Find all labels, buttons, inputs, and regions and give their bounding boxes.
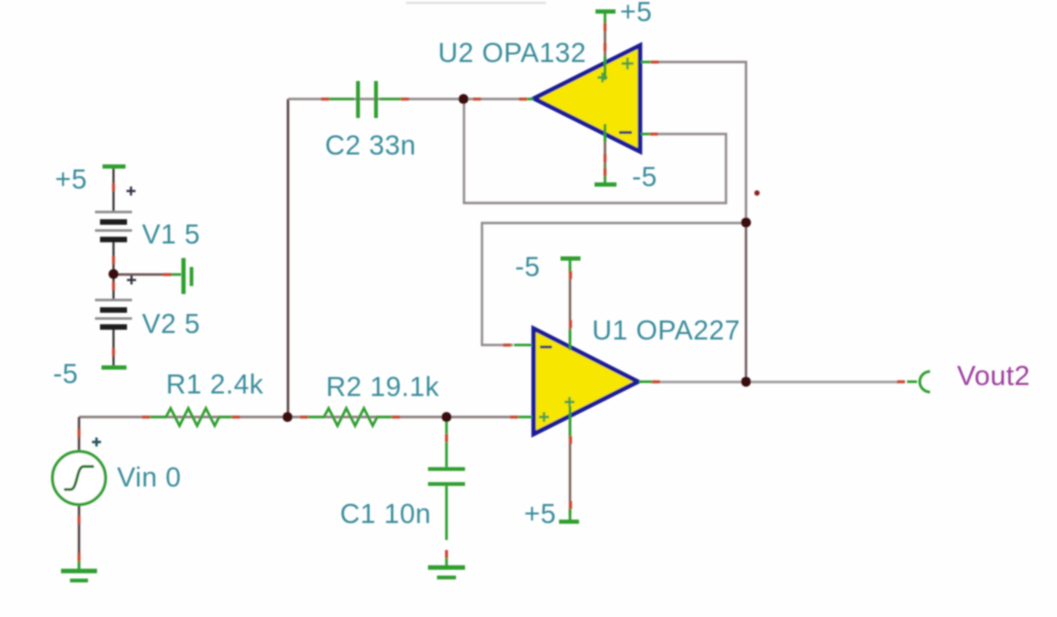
tick battery top bbox=[112, 183, 115, 191]
wire: battery stack middle stems bbox=[112, 240, 114, 300]
battery V2 plus mark bbox=[127, 276, 136, 285]
U1 power plus mark (inside) bbox=[565, 397, 575, 407]
Vout2 terminal stub bbox=[907, 380, 917, 383]
tick U2 out bbox=[519, 98, 527, 101]
tick Vin bottom 1 bbox=[78, 516, 81, 524]
tick U1 pwr top 2 bbox=[569, 320, 572, 328]
svg-text:U2 OPA132: U2 OPA132 bbox=[438, 37, 586, 68]
tick U1 -in bbox=[503, 344, 511, 347]
tick battery mid2 bbox=[112, 282, 115, 290]
junction node: battery mid bbox=[109, 269, 119, 279]
tick Vout2 bbox=[897, 380, 905, 383]
U1 -in minus mark (inside) bbox=[540, 346, 552, 349]
tick R2 left bbox=[300, 416, 308, 419]
power rail +5 bar (battery top) bbox=[103, 164, 126, 168]
tick ground run bbox=[163, 273, 171, 276]
svg-text:C1 10n: C1 10n bbox=[340, 498, 431, 529]
tick C1 top bbox=[445, 434, 448, 442]
U2 -in pin stub bbox=[641, 133, 651, 136]
wire: U2 top power stem bbox=[604, 20, 606, 74]
wire: U1 output run to Vout2 bbox=[650, 381, 900, 383]
tick U2 pwr bot 1 bbox=[604, 154, 607, 162]
battery V2 bbox=[95, 300, 132, 327]
power rail -5 bar (battery bottom) bbox=[102, 365, 127, 369]
ground (Vin source) bbox=[61, 560, 97, 581]
wire: battery stack top stem bbox=[112, 167, 114, 212]
svg-text:+5: +5 bbox=[524, 498, 556, 529]
U1 output pin stub bbox=[639, 380, 652, 383]
svg-text:U1 OPA227: U1 OPA227 bbox=[592, 315, 740, 346]
stray red dot bbox=[754, 190, 759, 195]
junction node: R1/R2/nodeA bbox=[283, 412, 293, 422]
svg-text:R1 2.4k: R1 2.4k bbox=[166, 369, 264, 400]
power rail -5 bar (U1 top) bbox=[561, 256, 581, 260]
tick U1 pwr bot 1 bbox=[569, 436, 572, 444]
wire: mid supply to ground run bbox=[114, 273, 173, 275]
tick U2 pwr top 1 bbox=[604, 23, 607, 31]
U1 +in plus mark (inside) bbox=[539, 412, 549, 422]
Vout2 open connector arc bbox=[920, 372, 930, 393]
wire: Vin source bottom lead to ground bbox=[78, 504, 80, 569]
U2 -in minus mark (inside) bbox=[619, 131, 632, 134]
tick Vin top bbox=[78, 429, 81, 437]
junction node: right rail upper bbox=[741, 218, 751, 228]
U2 output pin stub bbox=[524, 98, 533, 101]
resistor R2 19.1k bbox=[306, 408, 395, 425]
voltage source Vin (circle with waveform) bbox=[53, 452, 106, 505]
junction node: output node bbox=[741, 377, 751, 387]
tick U2 pwr top 2 bbox=[604, 43, 607, 51]
tick battery mid1 bbox=[112, 256, 115, 264]
tick R2 right bbox=[392, 416, 400, 419]
junction node: R2/C1/U1+in bbox=[442, 412, 452, 422]
battery V1 plus mark bbox=[127, 187, 136, 196]
op-amp U1 (OPA227, output right) bbox=[534, 329, 638, 434]
svg-text:-5: -5 bbox=[53, 358, 78, 389]
tick C1 bottom bbox=[445, 550, 448, 558]
svg-text:Vin 0: Vin 0 bbox=[117, 462, 181, 493]
ground (mid supply, pointing right) bbox=[172, 258, 192, 294]
U2 +in pin stub bbox=[641, 61, 653, 64]
wire: bottom input run y=417 (Vin corner to U1 +in) bbox=[79, 416, 516, 418]
tick R1 right bbox=[232, 416, 240, 419]
wire: battery stack bottom stem bbox=[112, 327, 114, 367]
tick R1 left bbox=[142, 416, 150, 419]
resistor R1 2.4k bbox=[150, 408, 236, 425]
tick U2 pwr bot 2 bbox=[604, 168, 607, 176]
tick Vin bottom 2 bbox=[78, 553, 81, 561]
capacitor C2 33n bbox=[326, 81, 403, 118]
svg-text:V2 5: V2 5 bbox=[142, 308, 200, 339]
tick battery bottom bbox=[112, 348, 115, 356]
wire: C2 / U2 output horizontal run at y=99 bbox=[288, 98, 523, 100]
wire: U1 bottom power stem bbox=[569, 410, 571, 515]
junction node: C2/U2 output bbox=[459, 94, 469, 104]
ground (C1) bbox=[428, 556, 465, 578]
svg-text:Vout2: Vout2 bbox=[957, 360, 1030, 391]
svg-text:+5: +5 bbox=[55, 164, 87, 195]
wire: Vin source top lead bbox=[78, 417, 80, 452]
tick C2 left bbox=[321, 98, 329, 101]
U1 bottom power stem green caps bbox=[569, 406, 572, 521]
tick U1 +in bbox=[510, 416, 518, 419]
tick U1 pwr bot 2 bbox=[569, 501, 572, 509]
wire: right rail x=746 down to output node bbox=[745, 223, 747, 382]
tick U1 out bbox=[652, 380, 660, 383]
wire: U2 bottom power stem bbox=[604, 125, 606, 178]
power rail +5 bar (U2 top) bbox=[596, 9, 616, 13]
tick node A top bbox=[473, 98, 481, 101]
U2 +in plus mark (inside) bbox=[622, 58, 634, 70]
tick C2 right bbox=[401, 98, 409, 101]
U1 -in pin stub bbox=[514, 344, 532, 347]
svg-text:V1 5: V1 5 bbox=[142, 219, 200, 250]
wire: U2 feedback box (output to -in) bbox=[464, 99, 726, 203]
U2 bottom power stem green caps bbox=[604, 124, 607, 184]
wire: U1 feedback box (output node to U1 -in) bbox=[482, 223, 746, 345]
power rail -5 bar (U2 bottom) bbox=[595, 182, 617, 186]
faint screenshot artifact line top bbox=[406, 2, 546, 4]
tick U1 pwr top 1 bbox=[569, 271, 572, 279]
svg-text:R2 19.1k: R2 19.1k bbox=[326, 371, 439, 402]
svg-text:+5: +5 bbox=[620, 0, 652, 27]
Vin plus mark bbox=[92, 438, 101, 447]
svg-text:-5: -5 bbox=[515, 251, 540, 282]
wire: node A vertical (C2 left to R1/R2 junction) bbox=[287, 99, 289, 417]
capacitor C1 10n bbox=[428, 420, 465, 540]
U2 power plus mark (inside) bbox=[598, 73, 608, 83]
tick U2 -in bbox=[650, 133, 658, 136]
pin tick marks (red) bbox=[78, 23, 906, 561]
op-amp U2 (OPA132, mirrored, output left) bbox=[534, 45, 640, 151]
U2 top power stem green caps bbox=[604, 12, 607, 80]
U1 top power stem green caps bbox=[569, 259, 572, 350]
wire: U2 +in run to right rail bbox=[654, 62, 746, 223]
battery V1 bbox=[95, 212, 132, 240]
wire: U1 top power stem bbox=[569, 266, 571, 340]
tick U2 +in bbox=[651, 61, 659, 64]
svg-text:-5: -5 bbox=[632, 161, 657, 192]
power rail +5 bar (U1 bottom) bbox=[559, 520, 579, 524]
U1 +in pin stub bbox=[517, 416, 532, 419]
svg-text:C2 33n: C2 33n bbox=[325, 130, 416, 161]
